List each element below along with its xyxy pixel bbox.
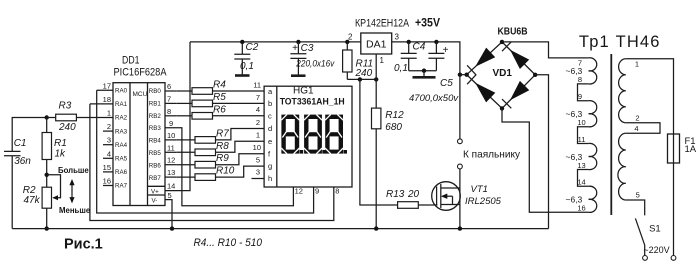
- switch S1: [635, 218, 660, 255]
- adjust arrow up/down: [69, 179, 74, 203]
- svg-text:КР142ЕН12А: КР142ЕН12А: [355, 18, 410, 30]
- bridge corner nodes: [500, 40, 504, 44]
- wire bridge right corner to ground rail: [535, 75, 548, 229]
- capacitor C1: [4, 138, 31, 167]
- node R2 bottom on rail: [45, 226, 49, 230]
- svg-text:2: 2: [348, 33, 353, 42]
- wire R13 to gate: [418, 204, 437, 206]
- wire R5 to display b: [213, 102, 265, 104]
- pin 17 stub: [97, 89, 113, 91]
- svg-text:~220V: ~220V: [643, 245, 669, 255]
- svg-text:240: 240: [355, 68, 373, 79]
- resistor R12: [372, 108, 405, 133]
- svg-text:+: +: [443, 45, 449, 56]
- resistor R13: [386, 189, 420, 208]
- svg-text:10: 10: [577, 118, 585, 127]
- pin 9 stub / wire RB3 to display pin 12: [165, 128, 293, 206]
- ground rail wire: [12, 228, 548, 230]
- svg-text:S1: S1: [649, 223, 661, 234]
- wire R9 to display f: [216, 154, 265, 165]
- terminal to soldering iron (upper): [458, 139, 463, 144]
- capacitor C3: [290, 40, 335, 75]
- display HG1 box: [264, 86, 352, 187]
- R2 wiper arrow: [47, 175, 61, 198]
- diode bottom-right: [502, 81, 529, 108]
- wire gate node down to R13: [360, 79, 398, 205]
- jumper pin10 to pin11: [578, 127, 589, 144]
- wire R10 to display g: [216, 166, 265, 177]
- svg-text:C4: C4: [413, 42, 426, 53]
- transformer core: [610, 54, 612, 215]
- pin 4 stub: [103, 157, 113, 159]
- jumper pin8 to pin9: [578, 84, 589, 101]
- pin 16 stub: [103, 185, 113, 187]
- pin 5 / V- wire to ground rail: [165, 200, 172, 229]
- 7-seg digit 1: [281, 115, 303, 154]
- resistor R7: [195, 137, 216, 144]
- wire R1 to R2: [46, 160, 48, 188]
- resistor R8: [195, 149, 216, 156]
- svg-text:13: 13: [577, 161, 585, 170]
- wire R7 to display d: [216, 129, 265, 140]
- wire C4/C5 common to ground: [409, 69, 437, 77]
- wire RB6 to R9: [177, 164, 195, 166]
- node wiper junction: [45, 173, 49, 177]
- wire DA1 pin1 down: [375, 54, 377, 108]
- pin 11 stub: [165, 151, 177, 153]
- svg-text:DA1: DA1: [366, 39, 387, 51]
- svg-text:0,1: 0,1: [394, 63, 408, 74]
- secondary winding 2 (pins 9-10): [589, 101, 597, 127]
- wire RB1 to R5: [177, 102, 192, 104]
- IC left pin labels RA0-RA7: [115, 88, 128, 190]
- wire R4 to display a: [213, 90, 265, 92]
- node R12 on rail: [374, 226, 378, 230]
- wire +35V rail right of DA1: [392, 42, 460, 75]
- wire node to R3: [47, 117, 56, 119]
- svg-text:1: 1: [380, 56, 385, 65]
- wire bridge top corner to transformer pin 7: [502, 42, 589, 58]
- pin 7 stub: [165, 102, 177, 104]
- diode bottom-left: [467, 75, 495, 103]
- svg-text:1A: 1A: [685, 144, 697, 155]
- wire R11 bottom to DA1 pin1: [347, 78, 376, 80]
- secondary winding 1 (pins 7-8): [589, 58, 597, 84]
- pin 1 stub wire to fuse: [626, 59, 674, 134]
- secondary winding 4 (pins 14-16): [589, 186, 597, 212]
- svg-text:8: 8: [335, 186, 339, 195]
- ground bar under C2: [235, 74, 250, 77]
- primary winding section 2 (pins 4-5): [618, 133, 626, 200]
- wire RB0 to R4: [177, 90, 192, 92]
- ground bar under C3: [291, 74, 306, 77]
- display pin number labels: [253, 81, 261, 177]
- display pin h dangling stub: [252, 178, 265, 180]
- svg-text:20: 20: [407, 189, 420, 200]
- svg-text:16: 16: [577, 204, 585, 213]
- wire fuse to right mains terminal: [673, 163, 675, 256]
- resistor R3: [56, 101, 77, 134]
- IC right pin labels RB0-RB7: [149, 88, 162, 182]
- voltage regulator DA1 KP142EH12A: [348, 33, 399, 66]
- potentiometer R2: [23, 175, 61, 208]
- resistor R11: [343, 40, 374, 80]
- wire R2 bottom to rail: [46, 208, 48, 228]
- pin 10 stub: [165, 139, 177, 141]
- wire RB4 to R7: [177, 139, 195, 141]
- wire R3 to IC pin1 (RA2): [76, 117, 113, 119]
- pin 5 stub wire to switch: [626, 200, 645, 215]
- svg-text:4700,0x50v: 4700,0x50v: [409, 93, 459, 104]
- pin 6 stub: [165, 90, 177, 92]
- resistor R1: [42, 118, 67, 160]
- svg-text:IRL2505: IRL2505: [465, 196, 502, 207]
- svg-text:KBU6B: KBU6B: [498, 27, 528, 38]
- secondary winding 3 (pins 11-13): [589, 143, 597, 169]
- svg-text:VT1: VT1: [471, 184, 488, 195]
- jumper pin13 to pin14: [578, 170, 589, 187]
- svg-text:3: 3: [395, 33, 400, 42]
- wire +5V rail left of DA1: [190, 41, 361, 43]
- resistor R6: [192, 113, 213, 120]
- resistor R5: [192, 100, 213, 107]
- node bridge DC+ branch: [458, 73, 462, 77]
- svg-text:C5: C5: [440, 78, 453, 89]
- wire R8 to display e: [216, 141, 265, 152]
- pin 18 stub: [90, 103, 113, 105]
- pin 3 stub: [103, 144, 113, 146]
- wire bridge left corner to DC+ node: [460, 74, 467, 76]
- diode top-right: [502, 42, 529, 69]
- node source on rail: [458, 226, 462, 230]
- svg-text:R13: R13: [386, 189, 405, 200]
- fuse F1 1A: [668, 134, 697, 163]
- capacitor C2: [234, 40, 258, 75]
- svg-text:К паяльнику: К паяльнику: [463, 149, 521, 161]
- wire R12 bottom to rail: [375, 129, 377, 229]
- terminal to soldering iron (lower): [458, 164, 463, 169]
- pin 2 stub: [103, 130, 113, 132]
- pin 15 stub: [103, 171, 113, 173]
- bridge diamond frame: [467, 42, 536, 109]
- node V- on rail: [170, 226, 174, 230]
- ground bar under C4/C5: [413, 76, 436, 79]
- pin 12 stub: [165, 164, 177, 166]
- svg-text:12: 12: [295, 186, 303, 195]
- op-amp U1 IC body DD1: [113, 83, 165, 206]
- svg-text:680: 680: [385, 122, 402, 133]
- svg-text:+ C3: + C3: [292, 43, 314, 54]
- transistor VT1 IRL2505 (MOSFET): [432, 182, 502, 211]
- svg-text:8: 8: [578, 75, 582, 84]
- node gate branch: [358, 77, 362, 81]
- pin 8 stub: [165, 115, 177, 117]
- wire R6 to display c: [213, 115, 265, 117]
- wire RA0 bus to display pin 9: [97, 90, 314, 213]
- mains terminal left: [643, 256, 648, 261]
- wire bridge bottom corner to transformer pin 16: [502, 108, 589, 212]
- 7-seg digit 2: [304, 115, 326, 154]
- pin 13 stub: [165, 176, 177, 178]
- wire RB2 to R6: [177, 115, 192, 117]
- wire drain-source tangent to rail: [459, 169, 461, 229]
- primary winding section 1 (pins 1-2): [619, 59, 626, 123]
- svg-text:4: 4: [634, 124, 638, 133]
- pin 2 to pin 4 jumper: [626, 123, 660, 134]
- wire RB7 to R10: [177, 176, 195, 178]
- svg-text:14: 14: [577, 178, 585, 187]
- mains terminal right: [671, 256, 676, 261]
- wire RB5 to R8: [177, 151, 195, 153]
- resistor R4: [192, 88, 213, 95]
- svg-text:5: 5: [636, 191, 640, 200]
- svg-text:+35V: +35V: [415, 18, 440, 30]
- display segment letters a-h: [268, 87, 273, 183]
- svg-text:Тр1 ТН46: Тр1 ТН46: [579, 33, 660, 51]
- svg-text:2: 2: [635, 113, 639, 122]
- 7-seg digit 3: [325, 115, 347, 154]
- svg-text:0,1: 0,1: [240, 61, 254, 72]
- diode top-left: [467, 48, 495, 75]
- svg-text:220,0x16v: 220,0x16v: [295, 59, 335, 70]
- svg-text:R12: R12: [385, 110, 404, 121]
- node junction R3/R1: [45, 115, 49, 119]
- svg-text:9: 9: [315, 186, 319, 195]
- capacitor C5: [409, 40, 459, 104]
- wire RA1 bus to display pin 8: [90, 104, 334, 221]
- resistor R10: [195, 174, 216, 181]
- svg-text:1: 1: [635, 59, 639, 68]
- wire DC+ down to upper iron terminal: [459, 75, 461, 139]
- pin 14 / V+ wire to +5V rail: [165, 42, 190, 191]
- capacitor C4: [394, 40, 426, 74]
- wire C1 top to R3 node: [12, 118, 47, 152]
- wire C1 bottom to ground rail: [11, 156, 13, 229]
- node DA1 pin1: [374, 77, 378, 81]
- resistor R9: [195, 161, 216, 168]
- 7-seg segment gap notches: [281, 114, 343, 153]
- svg-text:VD1: VD1: [493, 68, 513, 79]
- svg-text:C2: C2: [246, 42, 259, 53]
- svg-text:11: 11: [578, 135, 586, 144]
- svg-text:9: 9: [578, 92, 582, 101]
